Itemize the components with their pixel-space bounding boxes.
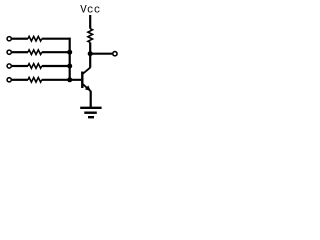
- terminal input 3: [7, 64, 11, 68]
- transistor Q1 collector diagonal: [83, 67, 91, 74]
- wire R1 to bus: [42, 38, 70, 40]
- transistor Q1 emitter diagonal: [83, 84, 91, 91]
- node Vcc label: [80, 4, 101, 16]
- resistor R1: [28, 36, 42, 41]
- node junction 4 (base node): [67, 77, 72, 82]
- svg-text:Vcc: Vcc: [80, 4, 101, 16]
- wire input 2: [12, 51, 28, 53]
- node collector junction: [88, 51, 93, 56]
- wire resistor to collector node: [89, 42, 91, 53]
- wire input 3: [12, 65, 28, 67]
- node junction 3: [67, 64, 72, 69]
- resistor R2: [28, 50, 42, 55]
- wire input bus: [69, 38, 71, 80]
- wire collector: [89, 54, 91, 68]
- wire output: [90, 53, 112, 55]
- terminal input 4: [7, 78, 11, 82]
- wire input 4: [12, 79, 28, 81]
- transistor Q1 emitter arrowhead: [85, 85, 91, 91]
- resistor R5 (collector pull-up): [88, 29, 93, 43]
- ground: [80, 108, 101, 117]
- terminal output: [113, 52, 117, 56]
- wire Vcc stub: [89, 15, 91, 29]
- wire R3 to bus: [42, 65, 70, 67]
- wire R2 to bus: [42, 51, 70, 53]
- resistor R3: [28, 64, 42, 69]
- node junction 2: [67, 50, 72, 55]
- terminal input 1: [7, 37, 11, 41]
- wire emitter to ground: [90, 91, 92, 107]
- wire input 1: [12, 38, 28, 40]
- resistor R4: [28, 78, 42, 83]
- wire R4 to base node: [42, 79, 82, 81]
- transistor Q1 base bar: [81, 72, 83, 89]
- terminal input 2: [7, 50, 11, 54]
